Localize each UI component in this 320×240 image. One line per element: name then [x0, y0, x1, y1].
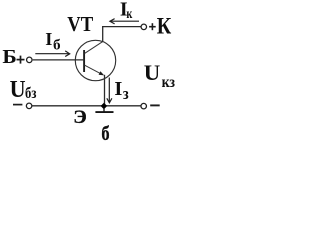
plus sign at collector: [149, 23, 156, 30]
ground stub: [103, 109, 105, 113]
svg-text:U: U: [10, 77, 26, 103]
transistor VT circle: [75, 40, 115, 80]
svg-text:б: б: [53, 38, 61, 54]
current Ik arrow: [110, 19, 139, 24]
current Ib arrow: [35, 51, 69, 57]
svg-text:I: I: [114, 78, 122, 100]
bottom wire: [32, 105, 141, 107]
emitter-side terminal circle left: [26, 103, 32, 109]
collector terminal circle: [141, 24, 147, 30]
svg-text:бз: бз: [25, 85, 36, 102]
emitter wire vertical: [104, 75, 106, 106]
ground bar: [95, 111, 113, 113]
emitter-side terminal circle right: [141, 103, 147, 109]
svg-text:VT: VT: [67, 12, 93, 36]
transistor VT emitter lead: [85, 65, 103, 75]
transistor VT base bar: [83, 50, 85, 72]
plus sign at base: [17, 56, 25, 64]
minus sign left: [13, 104, 22, 106]
svg-text:б: б: [101, 123, 109, 144]
transistor VT emitter arrowhead: [99, 71, 105, 75]
base terminal circle: [27, 57, 33, 63]
svg-text:I: I: [45, 29, 52, 49]
svg-text:U: U: [144, 60, 161, 85]
svg-text:К: К: [157, 14, 172, 40]
current Ie arrow: [107, 78, 112, 103]
collector wire vertical: [102, 26, 104, 42]
minus sign right: [150, 104, 160, 106]
svg-text:Э: Э: [73, 107, 87, 128]
collector wire horizontal: [102, 26, 141, 28]
svg-text:кз: кз: [162, 74, 175, 91]
base wire: [33, 59, 85, 61]
transistor VT collector lead: [85, 42, 103, 54]
emitter junction dot: [101, 103, 108, 110]
svg-text:з: з: [123, 84, 129, 103]
svg-text:Б: Б: [2, 47, 16, 68]
svg-text:к: к: [126, 6, 132, 21]
